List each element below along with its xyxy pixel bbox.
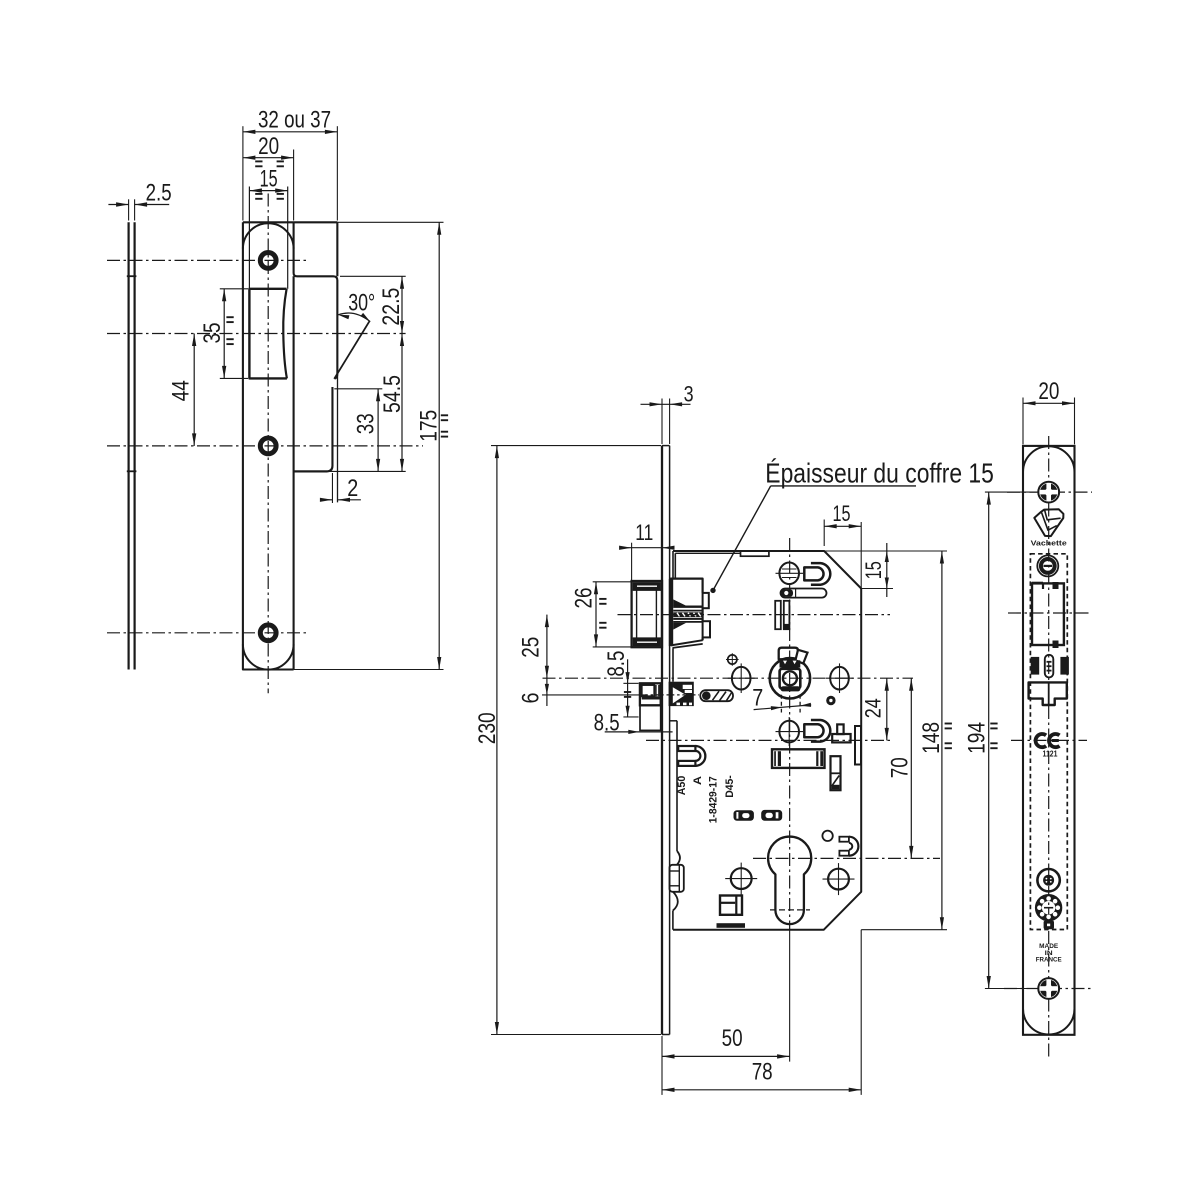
svg-text:Vachette: Vachette [1031,540,1067,547]
dim 54.5 [401,334,403,472]
dim 15 [249,190,287,192]
svg-text:24: 24 [861,698,886,718]
screw hole top [260,253,276,269]
latch pocket [674,553,676,578]
dim 6 [546,678,548,706]
svg-text:6: 6 [517,693,544,704]
top notch [741,551,769,556]
svg-text:50: 50 [722,1025,743,1052]
square with cross [720,896,742,915]
three slots [1031,657,1040,675]
dim 7 [754,705,812,710]
svg-text:15: 15 [861,561,886,579]
pill slot [781,589,827,598]
aux deadlatch [640,683,661,705]
dim 175 [337,221,443,223]
bottom arch [243,644,294,669]
dim 30deg [338,313,370,322]
euro cylinder [768,837,811,925]
lip fold tab [294,387,333,471]
svg-text:8.5: 8.5 [594,710,620,737]
dim 11 [631,543,633,581]
dim 35 [220,288,248,290]
pill right [761,810,782,821]
svg-text:26: 26 [570,588,597,609]
small donut [826,696,835,705]
centerlines [267,194,269,694]
dim 15 chamfer top [823,520,825,547]
strike plate edge view [128,222,130,669]
phillips screw right [828,869,849,890]
svg-text:70: 70 [887,757,914,778]
svg-text:194: 194 [964,722,991,754]
bridge lines [248,187,250,289]
vachette logo [1034,509,1063,536]
center box [772,749,825,768]
latch cutout [1032,583,1064,645]
keeper clip cylinder [839,837,849,842]
strike plate face view outline [243,222,337,669]
screw ellipse right [830,667,849,690]
dim 25 [546,615,548,679]
small screw [1037,869,1059,891]
dim 2.5 [128,199,130,220]
faceplate front view [1023,446,1075,1035]
black square [1044,921,1054,930]
screw hole middle [260,438,276,454]
latch box [249,289,287,379]
dim 230 [491,445,661,447]
svg-text:15: 15 [260,166,278,193]
small circle low [822,831,832,841]
screw ellipse bottom [779,721,799,743]
torx screw [1036,895,1061,920]
svg-text:2: 2 [347,475,358,502]
U clamp [678,746,695,751]
svg-text:22.5: 22.5 [378,288,405,326]
svg-text:11: 11 [635,520,653,545]
svg-text:44: 44 [168,380,195,401]
svg-text:2.5: 2.5 [146,179,172,206]
svg-text:8.5: 8.5 [603,651,630,677]
dim 78 [661,1036,663,1095]
dashed case outline [1030,554,1067,930]
dim 20 [293,150,295,221]
latch bolt tail [671,579,703,646]
svg-text:3: 3 [684,381,694,406]
slotted screw [1037,555,1058,576]
top screw [1040,483,1058,501]
small screw circle [728,655,737,664]
dim 33 [334,388,382,390]
svg-text:35: 35 [199,323,226,344]
side tab [855,726,861,765]
dim 194 [985,491,1037,493]
svg-text:230: 230 [474,712,501,744]
svg-text:54.5: 54.5 [379,375,406,413]
keeper clip lower [804,724,823,737]
hatched pill [700,690,733,701]
small rect right [831,756,841,790]
svg-text:175: 175 [415,410,442,442]
dim 15 chamfer right [860,588,893,590]
svg-text:15: 15 [833,501,851,526]
dim 8.5 upper [627,659,629,717]
svg-text:30°: 30° [348,289,375,316]
leader dot epaisseur [710,588,715,593]
bracket [837,724,843,734]
top edge extension [824,550,947,552]
svg-text:32 ou 37: 32 ou 37 [258,107,331,134]
dim 70 [910,678,912,858]
bottom tab [717,923,746,928]
dim 8.5 lower [605,731,673,733]
screw ellipse left [732,667,751,690]
dim 2 [331,473,333,503]
dim 26 [593,581,631,583]
lock case outline [673,551,861,930]
bottom screw [1040,980,1058,998]
faceplate side view [661,446,663,1035]
latch bolt head [632,581,662,647]
phillips screw left [731,868,752,889]
keeper clip top [804,567,823,580]
dim 50 [789,930,791,1062]
svg-text:25: 25 [517,637,544,658]
double bars [775,601,781,629]
dim 24 [886,678,888,740]
svg-text:D45-: D45- [724,775,736,798]
svg-text:Épaisseur du coffre 15: Épaisseur du coffre 15 [765,457,994,488]
screw ellipse top [779,563,799,585]
svg-text:20: 20 [1038,378,1059,405]
CE mark [1036,734,1047,747]
svg-text:FRANCE: FRANCE [1036,957,1062,964]
svg-text:7: 7 [752,685,763,712]
dim 44 [193,334,195,446]
dim 148 [861,929,947,931]
svg-text:20: 20 [258,133,279,160]
svg-text:1-8429-17: 1-8429-17 [708,776,720,823]
follower T cutout [1029,682,1067,705]
dim 3 [661,399,663,445]
svg-text:148: 148 [918,722,945,754]
case front bumps [677,851,680,865]
pill left [734,810,754,821]
dim 32 ou 37 [242,126,244,220]
case centerlines [618,614,891,616]
top arch [243,223,294,248]
svg-text:A: A [692,776,704,785]
svg-text:A50: A50 [676,776,688,796]
case front wall [672,551,674,579]
svg-text:1121: 1121 [1043,749,1058,758]
follower hub [770,658,810,698]
dim 20 right view [1022,398,1024,445]
dim 22.5 [340,275,406,277]
svg-text:78: 78 [752,1059,773,1086]
svg-text:33: 33 [353,413,380,434]
screw hole bottom [260,625,276,641]
